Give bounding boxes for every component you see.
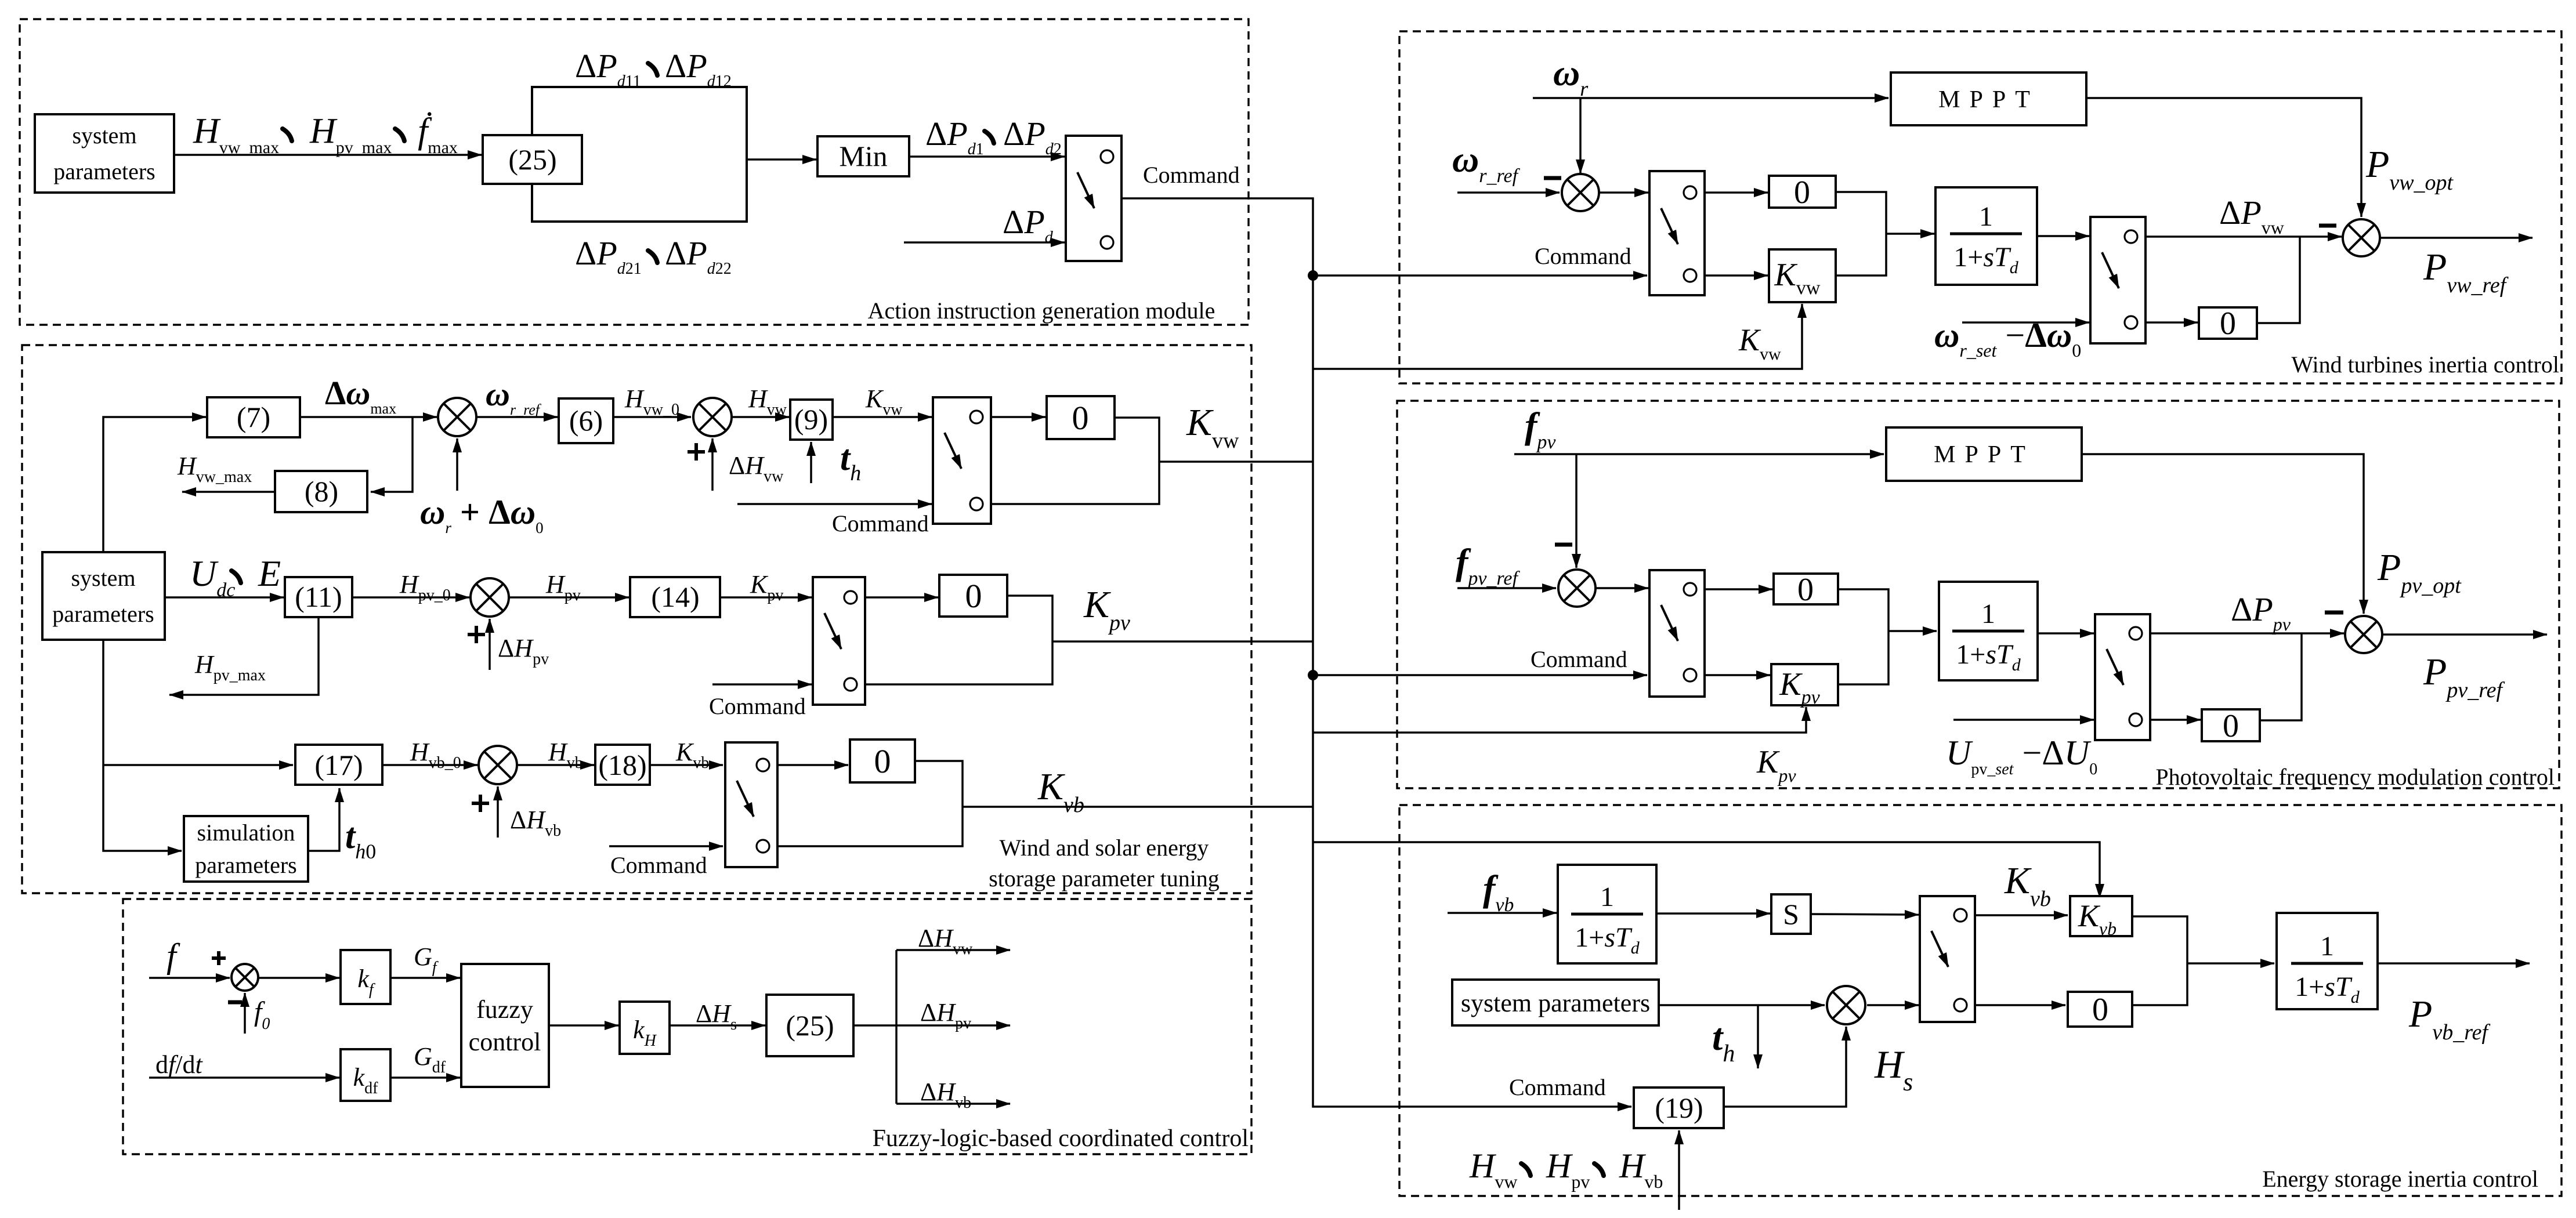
wire dPd input to switch S0 bottom — [904, 241, 1065, 244]
wire dHvb stub into c10 — [497, 786, 499, 838]
wire (7) to sum c7 — [300, 416, 437, 418]
wire Command row2 — [712, 683, 812, 686]
wire c1 to switch S1 — [1600, 191, 1648, 194]
svg-text:system: system — [72, 122, 136, 148]
wire Kpv feed to PV module — [1313, 707, 1806, 733]
wire Command to wind switch — [1313, 274, 1647, 277]
wire TF2 to switch S4 — [2038, 632, 2094, 635]
minus sign c6 — [228, 1000, 242, 1005]
block Kpv gain — [1771, 664, 1838, 705]
wire wr to MPPT — [1533, 97, 1888, 99]
comma H list 1 (ideographic comma) — [1521, 1163, 1531, 1176]
module border: Action instruction generation — [20, 19, 1249, 325]
block Kvb gain — [2070, 896, 2132, 936]
block transfer function 1/(1+sTd) pv — [1939, 582, 2038, 680]
wire wind join to TF — [1836, 192, 1886, 275]
svg-text:Upv_set −ΔU0: Upv_set −ΔU0 — [1946, 734, 2097, 778]
wire S2 to 0-box 2 wind — [2146, 321, 2198, 324]
svg-text:(17): (17) — [314, 749, 363, 781]
mult circle c5 — [1827, 986, 1865, 1024]
wire c9 to (14) — [509, 596, 629, 599]
comma 1 top label (ideographic comma) — [283, 129, 292, 141]
wire S4 to 0-box 2 pv — [2150, 719, 2201, 721]
block kH — [620, 1002, 670, 1054]
wire storage join — [2132, 916, 2187, 1005]
block (8) — [275, 471, 367, 512]
block 0 storage — [2068, 992, 2132, 1027]
sum circle c9 — [471, 578, 509, 617]
wire sysparams to mult c5 — [1659, 1004, 1825, 1006]
wire kf to fuzzy — [390, 977, 460, 979]
wire th drop — [1757, 1005, 1759, 1068]
svg-text:0: 0 — [1072, 399, 1089, 437]
svg-text:Action instruction generation: Action instruction generation module — [868, 298, 1215, 324]
block S — [1771, 894, 1811, 934]
wire Pvw_ref out — [2381, 237, 2532, 239]
wire 0 return to dPpv — [2260, 633, 2302, 720]
plus sign c8 — [688, 443, 705, 461]
wire wr_ref into c1 — [1457, 191, 1560, 194]
wire S6 to 0-box row1 — [991, 416, 1045, 418]
wire dHvw stub into c8 — [711, 438, 714, 491]
svg-text:(6): (6) — [569, 404, 603, 437]
svg-text:(25): (25) — [786, 1009, 834, 1042]
wire S3 to 0-box pv — [1705, 588, 1772, 590]
svg-text:(9): (9) — [794, 403, 828, 436]
wire (19) out to c5 — [1724, 1027, 1846, 1107]
svg-text:Fuzzy-logic-based coordinated: Fuzzy-logic-based coordinated control — [873, 1125, 1249, 1152]
wire TF3 to S block — [1656, 912, 1770, 915]
wire Ppv_ref out — [2383, 633, 2547, 636]
svg-text:fuzzy: fuzzy — [476, 995, 533, 1024]
module border: Energy storage inertia control — [1399, 805, 2561, 1196]
module border: Photovoltaic frequency modulation control — [1397, 401, 2559, 788]
svg-text:Photovoltaic frequency modulat: Photovoltaic frequency modulation contro… — [2155, 764, 2555, 790]
svg-text:(14): (14) — [651, 581, 699, 613]
svg-text:simulation: simulation — [197, 820, 295, 846]
wire S5 to 0-box storage — [1975, 1004, 2065, 1006]
block system parameters (module 2) — [42, 552, 165, 640]
block MPPT wind — [1891, 72, 2086, 125]
svg-text:ωr + Δω0: ωr + Δω0 — [420, 493, 544, 536]
svg-text:parameters: parameters — [53, 158, 155, 184]
svg-text:(25): (25) — [508, 143, 556, 176]
junction dot Command to PV — [1308, 670, 1318, 680]
block (9) — [790, 400, 833, 440]
svg-text:parameters: parameters — [195, 852, 296, 878]
minus sign c4 — [2325, 611, 2343, 615]
wire system parameters to (25) — [174, 154, 482, 156]
wire Command to PV switch — [1313, 674, 1647, 676]
svg-text:E: E — [258, 553, 281, 594]
svg-text:Command: Command — [1531, 646, 1627, 672]
comma dPd11 (ideographic comma) — [648, 63, 657, 75]
wire S5 to Kvb box — [1975, 914, 2068, 916]
wire S3 to Kpv box — [1705, 674, 1770, 676]
svg-text:1+sTd: 1+sTd — [1575, 922, 1640, 958]
comma 2 top label (ideographic comma) — [395, 129, 404, 141]
wire joint rect to Min — [747, 158, 816, 161]
wire (17) to sum c10 — [382, 764, 477, 766]
module border: Fuzzy-logic-based coordinated control — [123, 899, 1251, 1154]
wire f0 stub into c6 — [244, 993, 246, 1034]
wire TF1 to switch S2 — [2037, 235, 2089, 237]
switch S5 (storage) — [1920, 896, 1975, 1022]
wire th stub into (9) — [810, 442, 812, 483]
block (25) module1 — [483, 135, 582, 184]
wire c3 to switch S3 — [1597, 587, 1648, 589]
block 0 pv top — [1774, 574, 1838, 604]
wire Command row1 — [737, 503, 932, 505]
plus sign c9 — [468, 626, 485, 643]
wire MPPT out down to c2 — [2086, 98, 2361, 217]
svg-text:system: system — [71, 565, 135, 591]
block MPPT pv — [1886, 427, 2082, 481]
comma dPd21 (ideographic comma) — [648, 251, 657, 263]
svg-text:1+sTd: 1+sTd — [1953, 242, 2018, 277]
plus sign c6 — [212, 951, 226, 965]
switch S2 (wind) — [2090, 217, 2146, 343]
wire Upv_set input — [1953, 719, 2094, 721]
svg-text:0: 0 — [2092, 992, 2108, 1028]
minus sign c1 — [1544, 176, 1561, 180]
block 0 wind top — [1769, 176, 1836, 208]
wire MPPT pv out down to c4 — [2082, 454, 2364, 614]
svg-text:0: 0 — [874, 742, 891, 780]
block transfer function 1/(1+sTd) storage output — [2277, 913, 2378, 1009]
block simulation parameters — [184, 816, 308, 882]
wire wr_set input — [1962, 321, 2089, 324]
svg-text:Command: Command — [1535, 243, 1631, 269]
block kdf — [341, 1049, 390, 1101]
wire (11) to sum c9 — [352, 596, 469, 599]
svg-text:MPPT: MPPT — [1934, 441, 2035, 468]
block 0 row2 — [939, 575, 1007, 617]
wire sysparams up to (7) — [103, 417, 206, 552]
wire Kvw output from tuning module — [1159, 461, 1313, 463]
sum circle c2 — [2343, 219, 2380, 256]
wire Kpv output from tuning module — [1052, 640, 1313, 643]
svg-text:0: 0 — [1797, 572, 1814, 608]
wire (18) to switch S8 — [650, 764, 723, 766]
wire Command bus from S0 — [1121, 198, 1631, 1107]
svg-text:(11): (11) — [295, 581, 342, 613]
block Min — [817, 136, 909, 176]
block (7) — [207, 397, 300, 437]
wire S1 to Kvw box — [1705, 274, 1768, 277]
svg-text:1: 1 — [1600, 882, 1614, 912]
block (14) — [630, 577, 720, 617]
wire c7 to (6) — [476, 416, 558, 418]
svg-text:S: S — [1783, 898, 1799, 930]
wire S block to switch S5 — [1811, 914, 1919, 915]
svg-text:1: 1 — [1979, 201, 1993, 232]
wire (25) out riser — [853, 1024, 896, 1027]
wire 0-box row2 join — [865, 596, 1052, 684]
wire Command row3 — [609, 845, 723, 847]
svg-text:1+sTd: 1+sTd — [2295, 971, 2360, 1007]
svg-text:Min: Min — [839, 140, 887, 172]
svg-text:0: 0 — [2220, 306, 2236, 342]
wire wr+dw0 stub into c7 — [456, 438, 458, 491]
wire fpv drop to c3 — [1575, 454, 1578, 568]
wire (8) out Hvw_max arrow — [182, 491, 275, 493]
wire (6) to sum c8 — [613, 416, 691, 418]
block 0 row1 — [1047, 396, 1115, 439]
wire sim params to (17) bottom — [308, 788, 339, 851]
block joint rectangle — [532, 87, 747, 222]
switch S6 (row vw) — [933, 397, 991, 524]
svg-text:df/dt: df/dt — [155, 1050, 203, 1079]
module border: Wind and solar energy storage parameter tuning — [22, 345, 1251, 893]
svg-text:control: control — [469, 1028, 541, 1056]
svg-text:parameters: parameters — [52, 601, 154, 627]
svg-text:Command: Command — [610, 852, 707, 878]
module border: Wind turbines inertia control — [1399, 31, 2561, 383]
wire H inputs into (19) — [1678, 1130, 1680, 1210]
switch S3 (pv) — [1649, 570, 1705, 697]
wire sysparams to (11) — [165, 596, 284, 599]
svg-text:1+sTd: 1+sTd — [1956, 639, 2021, 675]
wire df/dt input — [149, 1076, 339, 1079]
svg-text:1: 1 — [2320, 931, 2334, 962]
wire c5 to switch S5 bottom — [1867, 1004, 1919, 1006]
svg-text:Command: Command — [832, 510, 929, 536]
wire fuzzy to kH — [549, 1024, 618, 1027]
wire join tap to TF1 — [1886, 233, 1934, 235]
wire Pvb_ref out — [2378, 962, 2530, 965]
junction dot Command to wind — [1308, 270, 1318, 281]
svg-text:Energy storage inertia control: Energy storage inertia control — [2262, 1166, 2538, 1192]
svg-text:Wind turbines inertia control: Wind turbines inertia control — [2291, 351, 2559, 378]
sum circle c7 — [438, 398, 476, 436]
wire S7 to 0-box row2 — [865, 596, 938, 599]
wire fvb input — [1448, 912, 1557, 914]
block (6) — [559, 398, 613, 443]
wire Min to switch S0 top — [909, 155, 1065, 158]
svg-text:(19): (19) — [1655, 1092, 1703, 1124]
sum circle c1 — [1562, 174, 1599, 211]
block (19) — [1634, 1087, 1724, 1128]
wire sysparams down to sim — [103, 640, 182, 851]
wire Kvw feed to wind module — [1313, 304, 1802, 369]
wire riser vertical — [895, 950, 898, 1104]
wire dPvw wire to c2 — [2146, 235, 2342, 238]
svg-text:(8): (8) — [305, 475, 338, 507]
block kf — [341, 950, 390, 1004]
block fuzzy control — [461, 964, 549, 1087]
wire wr drop to c1 — [1579, 98, 1582, 173]
wire S8 to 0-box row3 — [777, 764, 848, 766]
wire branch down to (8) — [371, 417, 413, 492]
svg-text:ωr_set −Δω0: ωr_set −Δω0 — [1934, 316, 2081, 361]
wire c6 to kf — [258, 977, 339, 979]
wire dPpv wire to c4 — [2150, 632, 2344, 635]
comma H list 2 (ideographic comma) — [1594, 1163, 1604, 1176]
svg-text:system parameters: system parameters — [1461, 989, 1650, 1017]
wire fpv_ref into c3 — [1457, 587, 1556, 589]
block system parameters (storage) — [1452, 980, 1659, 1025]
wire kH to (25) — [670, 1024, 765, 1027]
sum circle c4 — [2345, 616, 2382, 653]
wire Kvb output from tuning module — [963, 806, 1313, 808]
wire join tap to TF4 — [2187, 962, 2274, 965]
sum circle c3 — [1558, 570, 1595, 607]
wire 0-box row3 join — [777, 761, 963, 846]
wire dHpv stub into c9 — [489, 619, 491, 670]
sum circle c10 — [479, 746, 517, 784]
block (18) — [595, 745, 650, 785]
svg-text:0: 0 — [2223, 708, 2239, 744]
block (25) fuzzy — [766, 995, 853, 1056]
switch S8 (row vb) — [725, 742, 777, 867]
wire c10 to (18) — [517, 764, 594, 766]
wire Hpv_max out — [169, 617, 319, 695]
svg-text:MPPT: MPPT — [1938, 86, 2039, 113]
block system parameters (module 1) — [35, 114, 174, 193]
minus sign c2 — [2319, 224, 2336, 228]
wire pv join to TF — [1838, 589, 1888, 684]
block (11) — [285, 577, 352, 617]
wire dHvw output — [896, 949, 1010, 951]
wire dHpv output — [896, 1024, 1010, 1027]
switch S1 (wind) — [1649, 171, 1705, 295]
comma Udc E (ideographic comma) — [231, 571, 241, 583]
wire 0 return to dPvw — [2257, 237, 2300, 323]
svg-text:0: 0 — [965, 577, 982, 615]
wire join tap to TF2 — [1888, 630, 1937, 632]
svg-text:Command: Command — [709, 693, 806, 719]
switch S7 (row pv) — [813, 577, 865, 705]
wire branch to (17) — [103, 764, 293, 766]
wire (14) to switch S7 — [720, 596, 812, 599]
sum circle c8 — [693, 398, 732, 436]
wire fpv to MPPT — [1514, 453, 1884, 455]
wire kdf to fuzzy — [390, 1076, 460, 1079]
wire (9) to switch S6 — [833, 416, 932, 418]
comma dPd1 (ideographic comma) — [985, 131, 994, 143]
block Kvw gain — [1769, 249, 1836, 302]
block 0 wind bottom — [2199, 307, 2257, 339]
plus sign c10 — [472, 795, 489, 812]
svg-text:(7): (7) — [237, 401, 270, 433]
block transfer function 1/(1+sTd) wind — [1935, 187, 2037, 285]
svg-text:Wind and solar energy: Wind and solar energy — [1000, 835, 1209, 861]
svg-text:Command: Command — [1509, 1074, 1606, 1100]
minus sign c3 — [1555, 543, 1572, 547]
block (17) — [295, 745, 382, 785]
block 0 row3 — [850, 739, 915, 782]
block transfer function 1/(1+sTd) storage input — [1558, 865, 1656, 963]
wire Kvb feed to storage module — [1313, 842, 2100, 898]
wire c8 to (9) — [732, 416, 789, 418]
svg-text:Command: Command — [1143, 162, 1240, 188]
wire dHvb output — [896, 1103, 1010, 1105]
switch S4 (pv) — [2095, 614, 2150, 740]
switch S0 (module 1) — [1066, 136, 1121, 261]
wire f input — [149, 977, 230, 979]
wire 0-box row1 join — [991, 418, 1159, 504]
sum circle c6 — [231, 964, 258, 991]
svg-text:(18): (18) — [598, 749, 646, 781]
svg-text:0: 0 — [1794, 175, 1810, 211]
svg-text:storage parameter tuning: storage parameter tuning — [989, 865, 1220, 891]
block 0 pv bottom — [2202, 709, 2260, 741]
wire S1 to 0-box wind — [1705, 191, 1768, 194]
svg-text:1: 1 — [1981, 599, 1995, 629]
